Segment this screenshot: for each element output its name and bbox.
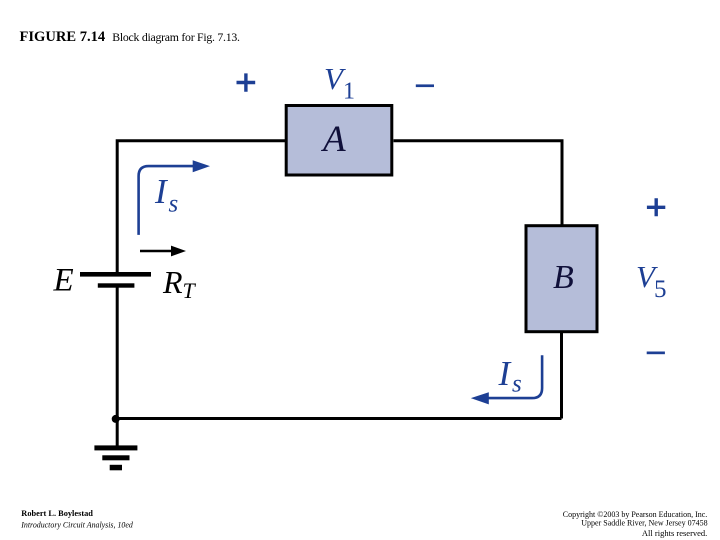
svg-text:All rights reserved.: All rights reserved. — [642, 528, 707, 538]
svg-text:5: 5 — [654, 276, 667, 303]
svg-text:A: A — [320, 119, 346, 160]
label + (V5 plus) — [647, 198, 665, 216]
svg-text:Robert L. Boylestad: Robert L. Boylestad — [21, 509, 93, 518]
battery E short plate — [98, 283, 135, 287]
svg-text:Upper Saddle River, New Jersey: Upper Saddle River, New Jersey 07458 — [581, 519, 707, 528]
svg-text:Block diagram for Fig. 7.13.: Block diagram for Fig. 7.13. — [112, 30, 240, 44]
svg-text:s: s — [512, 371, 522, 398]
wire: block A to right rail and down to block B — [394, 141, 563, 225]
blue arrow Is (return current, bottom-right) — [487, 355, 542, 398]
label + (V1 plus) — [237, 73, 256, 91]
block A — [286, 106, 392, 176]
svg-text:Introductory Circuit Analysis,: Introductory Circuit Analysis, 10ed — [20, 521, 133, 530]
label minus (V1) — [416, 84, 434, 87]
block B — [526, 226, 597, 332]
junction node — [112, 415, 120, 423]
wire: left rail below battery down to junction — [116, 288, 119, 421]
ground — [94, 445, 137, 450]
wire: left rail top corner to block A — [117, 141, 286, 272]
wire: bottom rail — [116, 417, 562, 420]
svg-text:1: 1 — [343, 79, 355, 105]
wire: junction to ground — [116, 418, 119, 446]
blue arrow Is (source current, top-left) — [139, 166, 194, 235]
svg-text:B: B — [553, 259, 574, 296]
svg-text:E: E — [53, 263, 74, 299]
wire: block B bottom down to bottom rail — [560, 333, 563, 419]
label minus (V5) — [647, 352, 665, 355]
svg-text:s: s — [169, 191, 179, 218]
svg-text:FIGURE 7.14: FIGURE 7.14 — [20, 29, 106, 45]
battery E long plate — [80, 272, 151, 277]
current direction arrow (black) above battery — [140, 250, 173, 253]
